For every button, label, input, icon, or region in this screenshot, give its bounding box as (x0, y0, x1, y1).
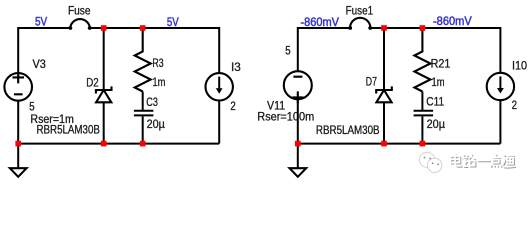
wire: D7 top lead (383, 28, 385, 90)
capacitor C11 (414, 92, 434, 144)
junction: C11 bottom (420, 141, 426, 147)
wire: right circuit top-right segment + I10 top lead (370, 28, 500, 73)
svg-text:2: 2 (230, 99, 236, 113)
capacitor C3 (134, 92, 154, 144)
wire: left circuit bottom rail (18, 143, 219, 145)
junction: R3 top (140, 25, 146, 31)
svg-text:I10: I10 (512, 59, 527, 73)
svg-text:C3: C3 (146, 95, 158, 109)
junction: D2 top (101, 25, 107, 31)
wire: D7 bottom lead (383, 102, 385, 143)
svg-text:Fuse: Fuse (68, 3, 91, 17)
wire: I3 bottom lead (218, 101, 220, 144)
svg-text:V3: V3 (33, 57, 47, 71)
resistor R3 (135, 28, 151, 92)
wire: I10 bottom lead (499, 100, 501, 143)
fuse Fuse symbol (69, 19, 92, 30)
junction: V11 / ground bottom (295, 141, 301, 147)
wire: D2 bottom lead (103, 102, 105, 143)
svg-text:I3: I3 (231, 60, 241, 74)
svg-text:5: 5 (285, 43, 291, 57)
current source I3 (206, 73, 233, 100)
ground (left circuit) (10, 144, 27, 177)
fuse Fuse1 symbol (348, 18, 372, 30)
svg-text:RBR5LAM30B: RBR5LAM30B (316, 123, 380, 137)
svg-text:2: 2 (512, 98, 518, 112)
svg-text:-860mV: -860mV (301, 15, 340, 29)
junction: D7 bottom (381, 141, 387, 147)
watermark text 电路一点通 (white with gray shadow) (451, 153, 516, 168)
svg-text:R3: R3 (152, 56, 163, 70)
current source I10 (487, 73, 514, 100)
svg-text:5V: 5V (167, 15, 179, 29)
svg-text:1m: 1m (152, 75, 165, 89)
svg-text:D2: D2 (86, 76, 99, 90)
schottky diode D7 (376, 86, 392, 102)
svg-text:D7: D7 (366, 74, 377, 88)
svg-text:Rser=100m: Rser=100m (257, 110, 314, 124)
junction: C3 bottom (140, 141, 146, 147)
schottky diode D2 (96, 86, 112, 102)
svg-text:20µ: 20µ (427, 117, 445, 131)
watermark logo (two faint circles) (419, 152, 441, 172)
junction: D2 bottom (101, 141, 107, 147)
svg-text:Fuse1: Fuse1 (346, 4, 374, 18)
junction: D7 top (381, 25, 387, 31)
wire: V11 bottom lead (297, 99, 299, 143)
svg-text:1m: 1m (432, 75, 445, 89)
svg-text:5V: 5V (35, 15, 47, 29)
svg-text:C11: C11 (426, 95, 444, 109)
svg-text:20µ: 20µ (147, 117, 165, 131)
wire: left circuit top-left segment + V3 top lead (18, 28, 70, 73)
svg-text:R21: R21 (431, 57, 451, 71)
svg-text:-860mV: -860mV (433, 14, 472, 28)
voltage source V3 (4, 72, 32, 101)
wire: right circuit top-left segment + V11 top lead (298, 28, 350, 71)
junction: R21 top (420, 25, 426, 31)
wire: left circuit top-right segment + I3 top lead (90, 28, 219, 73)
junction: V3 / ground bottom (15, 141, 21, 147)
wire: D2 top lead (103, 28, 105, 90)
ground (right circuit) (290, 144, 307, 177)
wire: right circuit bottom rail (298, 143, 501, 145)
voltage source V11 (flipped: minus on top) (284, 71, 312, 103)
svg-text:RBR5LAM30B: RBR5LAM30B (37, 122, 100, 136)
wire: V3 bottom lead (17, 101, 19, 144)
resistor R21 (414, 28, 430, 92)
